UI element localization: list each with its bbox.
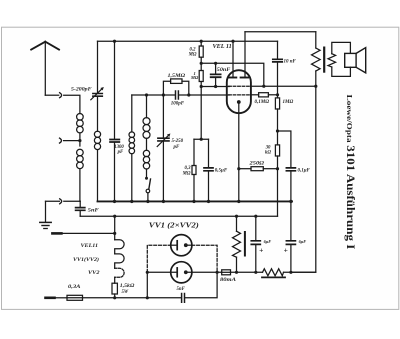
wire ground line bbox=[46, 200, 81, 202]
heater VEL11 bbox=[115, 240, 124, 254]
wire bbox=[131, 154, 133, 202]
node dot bbox=[254, 271, 257, 274]
grid g1 dashes bbox=[229, 94, 250, 96]
node dot bbox=[200, 85, 203, 88]
wire HT top line bbox=[98, 40, 278, 42]
wire tuned bus to tube grid bbox=[179, 94, 229, 96]
switch S1 bbox=[145, 177, 151, 202]
svg-text:VV1(VV2): VV1(VV2) bbox=[73, 258, 99, 263]
bleeder resistor zigzag bbox=[262, 269, 316, 278]
wire plug to coil bbox=[64, 95, 80, 113]
node dot bbox=[289, 271, 292, 274]
svg-text:3101 Ausführung I: 3101 Ausführung I bbox=[344, 145, 358, 249]
variable capacitor 5-200pF bbox=[91, 87, 104, 100]
svg-text:MΩ: MΩ bbox=[190, 75, 199, 80]
bus 2 chassis rail bbox=[80, 215, 277, 217]
node dot bbox=[146, 271, 149, 274]
node dot bbox=[276, 93, 279, 96]
rectifier VV2a bbox=[171, 235, 192, 256]
wire mains lead 2 bbox=[46, 296, 68, 299]
node dot bbox=[113, 215, 116, 218]
svg-text:0,1μF: 0,1μF bbox=[298, 169, 311, 174]
anode lead left bbox=[232, 41, 234, 77]
node dot bbox=[214, 85, 217, 88]
resistor 30kOhm R7 bbox=[275, 131, 279, 169]
node dot bbox=[146, 296, 149, 299]
node dot bbox=[162, 93, 165, 96]
coil L4b bbox=[143, 150, 149, 169]
VV1 dashed box bbox=[147, 245, 217, 272]
wire B+ rail right bbox=[291, 86, 316, 272]
wire tap bbox=[64, 140, 80, 142]
capacitor 6uF C9 bbox=[251, 216, 260, 272]
capacitor 100pF C3 bbox=[176, 91, 179, 99]
svg-text:1,5kΩ: 1,5kΩ bbox=[120, 284, 135, 289]
capacitor 50nF C4 bbox=[211, 63, 221, 86]
capacitor 1300pF C2 bbox=[110, 140, 119, 143]
svg-text:0,3A: 0,3A bbox=[68, 285, 81, 290]
wire bbox=[162, 142, 164, 202]
bus1 node dots bbox=[113, 200, 293, 203]
svg-text:5-250: 5-250 bbox=[172, 139, 184, 144]
svg-text:+: + bbox=[259, 245, 263, 254]
node dot bbox=[200, 40, 203, 43]
wire bbox=[114, 143, 116, 202]
heater VV2 dashed bbox=[115, 268, 124, 277]
capacitor 10nF C6 bbox=[273, 41, 282, 95]
coil L3 bbox=[129, 132, 135, 154]
cathode bbox=[237, 100, 241, 104]
node dot bbox=[254, 215, 257, 218]
node dot bbox=[235, 215, 238, 218]
coil L1b bbox=[77, 149, 84, 168]
capacitor 0,5uF C5 bbox=[204, 139, 213, 201]
capacitor 5nF C8 bbox=[182, 294, 185, 303]
anode lead right bbox=[244, 32, 246, 78]
wire antenna to plug bbox=[45, 94, 58, 96]
antenna bbox=[31, 42, 59, 96]
wire grid line left bbox=[201, 86, 229, 88]
anode plate right bbox=[241, 77, 249, 79]
capacitor 5nF C1 bbox=[76, 201, 85, 216]
svg-text:kΩ: kΩ bbox=[265, 151, 271, 156]
tube VEL11 envelope bbox=[227, 70, 251, 113]
speaker LS bbox=[345, 48, 366, 73]
svg-text:MΩ: MΩ bbox=[182, 171, 191, 176]
wire coil to ground node bbox=[79, 169, 81, 202]
wire 5nF to corner bbox=[185, 272, 217, 298]
fuse 0,3A bbox=[67, 295, 83, 300]
svg-text:VV1 (2×VV2): VV1 (2×VV2) bbox=[149, 222, 199, 230]
node dot bbox=[113, 40, 116, 43]
wire anode top line bbox=[245, 31, 316, 33]
svg-text:6μF: 6μF bbox=[264, 239, 272, 244]
wire screen feed bbox=[201, 63, 264, 86]
node dot bbox=[231, 40, 234, 43]
svg-text:5-200pF: 5-200pF bbox=[71, 88, 92, 93]
wire drop to bus2 bbox=[277, 169, 279, 217]
node dot bbox=[200, 62, 203, 65]
resistor 1MOhm R3 bbox=[199, 63, 203, 86]
wire grid node drop bbox=[200, 87, 202, 140]
resistor 1,5kOhm R9 bbox=[112, 277, 117, 298]
wire bbox=[79, 133, 81, 146]
wire mains to 5nF bbox=[83, 297, 181, 299]
bus 1 main rail bbox=[98, 200, 293, 202]
svg-text:10 nF: 10 nF bbox=[284, 59, 297, 64]
svg-text:MΩ: MΩ bbox=[188, 52, 197, 57]
svg-text:0,5μF: 0,5μF bbox=[215, 169, 228, 174]
svg-text:1MΩ: 1MΩ bbox=[283, 100, 294, 105]
wire top feed 5-200pF bbox=[97, 41, 99, 92]
resistor 1MOhm R6 bbox=[275, 95, 279, 131]
svg-text:VEL11: VEL11 bbox=[81, 244, 99, 249]
wire coil5 riser bbox=[146, 95, 148, 118]
node dot bbox=[237, 167, 240, 170]
wire tuned bus top bbox=[132, 94, 175, 96]
svg-text:1,5MΩ: 1,5MΩ bbox=[168, 74, 186, 79]
svg-text:5W: 5W bbox=[122, 290, 129, 295]
wire mains lead 1 bbox=[52, 232, 114, 235]
wire 5-250 riser bbox=[162, 95, 164, 138]
coil L2 bbox=[94, 131, 100, 149]
wire RC hang bar bbox=[194, 138, 209, 140]
rectifier VV2b bbox=[147, 262, 221, 283]
fuse 80mA bbox=[222, 270, 263, 275]
connector plug J2 bbox=[60, 138, 62, 143]
svg-text:0,1MΩ: 0,1MΩ bbox=[255, 100, 270, 105]
resistor 0,3MOhm R4 bbox=[192, 139, 196, 201]
wire screen right row bbox=[251, 85, 316, 87]
wire cap to coil2 bbox=[97, 97, 99, 131]
svg-text:5nF: 5nF bbox=[177, 287, 186, 292]
heater VV1 bbox=[115, 254, 124, 268]
node dot bbox=[276, 167, 279, 170]
svg-text:80mA: 80mA bbox=[220, 278, 236, 283]
svg-text:5nF: 5nF bbox=[88, 209, 100, 214]
anode plate left bbox=[229, 77, 236, 79]
resistor 250Ohm R8 bbox=[239, 167, 278, 171]
capacitor 0,1uF C7 bbox=[278, 131, 296, 201]
node dot bbox=[187, 93, 190, 96]
node dot bbox=[200, 138, 203, 141]
heater chain riser bbox=[114, 216, 116, 240]
svg-text:50nF: 50nF bbox=[217, 68, 231, 73]
svg-text:VV2: VV2 bbox=[88, 271, 100, 276]
coil L4a bbox=[143, 118, 150, 139]
node dot bbox=[276, 129, 279, 132]
connector plug J1 bbox=[60, 93, 62, 98]
grid g2 dashes bbox=[229, 85, 250, 87]
ground bbox=[40, 201, 51, 228]
wire VV1 left drop bbox=[146, 272, 148, 298]
wire bbox=[146, 138, 148, 150]
node dot bbox=[314, 85, 317, 88]
svg-text:6μF: 6μF bbox=[299, 239, 307, 244]
resistor 0,2MOhm R2 bbox=[199, 41, 203, 63]
node dot bbox=[216, 271, 219, 274]
wire coil2 bottom riser bbox=[97, 150, 99, 202]
variable capacitor 5-250pF bbox=[157, 134, 170, 147]
svg-text:250Ω: 250Ω bbox=[248, 162, 264, 167]
node dot bbox=[235, 271, 238, 274]
node dot bbox=[262, 85, 265, 88]
node dot bbox=[145, 93, 148, 96]
node dot bbox=[214, 62, 217, 65]
wire coil4 riser bbox=[131, 95, 133, 132]
connector plug J3 bbox=[60, 199, 62, 204]
cathode lead bbox=[238, 102, 240, 201]
svg-text:pF: pF bbox=[117, 150, 124, 155]
node dot bbox=[113, 232, 116, 235]
svg-text:100pF: 100pF bbox=[171, 102, 185, 107]
output transformer T1 bbox=[312, 32, 351, 86]
svg-text:+: + bbox=[284, 245, 288, 254]
field winding resistor bbox=[233, 216, 245, 272]
wire 1300pF feed bbox=[114, 41, 116, 139]
coil L1a bbox=[77, 114, 84, 133]
resistor 1,5MOhm R1 bbox=[163, 79, 188, 95]
svg-text:pF: pF bbox=[173, 145, 181, 150]
capacitor 6uF C10 bbox=[286, 201, 295, 272]
node dot bbox=[113, 296, 116, 299]
svg-text:VEL 11: VEL 11 bbox=[213, 43, 232, 50]
node tap dot bbox=[78, 139, 81, 142]
svg-text:Loewe/Opta: Loewe/Opta bbox=[345, 95, 353, 144]
resistor 0,1MOhm R5 bbox=[251, 93, 278, 97]
wire bbox=[146, 169, 148, 177]
